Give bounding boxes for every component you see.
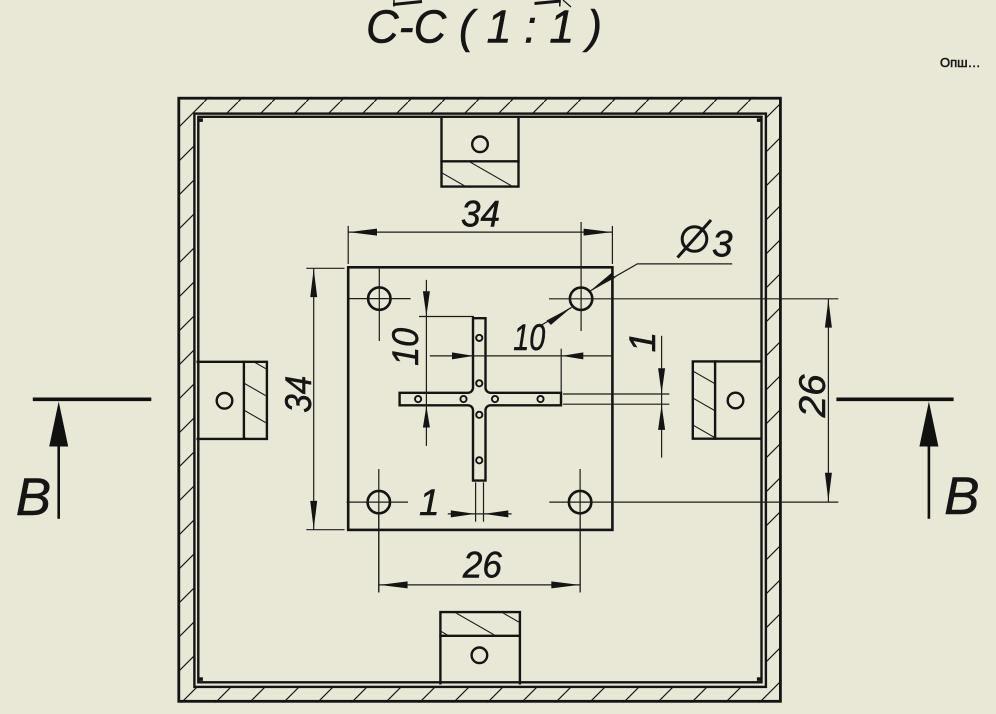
centerline top-left hole vertical — [378, 269, 380, 341]
svg-text:1: 1 — [419, 482, 440, 523]
dim 10 horizontal: ext line — [560, 349, 562, 393]
dim 34 left: arrow top — [310, 269, 317, 297]
dim 26 right: arrow top — [825, 299, 832, 327]
centerline+ext top-right hole horizontal — [549, 298, 838, 300]
svg-text:B: B — [16, 468, 51, 527]
dim 26 bottom: dim line — [379, 584, 580, 586]
frame innermost edge — [198, 117, 761, 683]
dim 1 bottom: dim line — [448, 513, 512, 515]
slot circle right-inner — [492, 396, 498, 402]
plate hole top-left — [368, 287, 390, 309]
top tab divider — [440, 160, 519, 162]
left tab hole — [217, 393, 233, 409]
dim 10 vertical: arrow bottom (up) — [423, 406, 430, 428]
inner plate contour — [348, 267, 612, 530]
dim 26 bottom: ext line right — [579, 514, 581, 592]
svg-text:3: 3 — [712, 223, 733, 264]
svg-text:B: B — [944, 467, 979, 526]
frame wall hatch fill — [178, 97, 782, 703]
svg-text:10: 10 — [385, 328, 426, 366]
dim 10 vertical: ext line — [419, 316, 474, 318]
section arrow B right — [919, 402, 938, 447]
svg-text:Опш…: Опш… — [940, 55, 981, 70]
slot circle left-inner — [460, 396, 466, 402]
plate hole top-right — [570, 288, 592, 310]
dim 34 top: arrow left — [349, 229, 377, 236]
right tab hole — [728, 393, 744, 409]
dim 34 top: ext line right — [611, 226, 613, 264]
centerline bottom-right hole vertical + ext — [579, 469, 581, 592]
dia3 leader arrow upper — [590, 273, 615, 291]
dim 34 left: dim line — [313, 268, 315, 529]
corner mark top-right — [757, 118, 761, 122]
slot circle bottom-outer — [476, 457, 482, 463]
dim 1 bottom: ext line left — [475, 482, 477, 521]
dim 10 horizontal: arrow right (left-pointing) — [562, 352, 584, 359]
frame outer contour — [179, 98, 781, 701]
bottom tab section hatch — [442, 613, 519, 635]
dim 1 bottom: arrow right (left-pointing) — [484, 510, 508, 517]
clipped mark left above title — [393, 2, 422, 5]
dim 1 bottom: ext line right — [483, 482, 485, 521]
centerline bottom-left hole vertical + ext — [378, 469, 380, 592]
dim 10 horizontal: dim line — [430, 355, 612, 357]
dim 26 bottom: ext line left — [378, 514, 380, 592]
slot circle top-inner — [476, 380, 482, 386]
plate hole bottom-right — [569, 491, 591, 513]
right tab body — [693, 361, 762, 438]
dim 1 right: arrow top (down) — [658, 368, 665, 393]
dim 34 left: ext line bottom — [306, 529, 344, 531]
svg-text:C-C ( 1 : 1 ): C-C ( 1 : 1 ) — [366, 1, 602, 53]
svg-text:26: 26 — [462, 545, 502, 586]
dim 34 left: arrow bottom — [310, 501, 317, 529]
plate hole bottom-left — [368, 491, 390, 513]
svg-text:26: 26 — [792, 374, 833, 418]
centerline+ext bottom-right hole horizontal — [549, 501, 838, 503]
cross slot contour — [400, 318, 561, 480]
centerline top-left hole horizontal — [350, 298, 411, 300]
left tab body — [197, 362, 267, 439]
centerline bottom-left hole horizontal — [347, 501, 409, 503]
dia3 leader arrow lower — [547, 307, 572, 325]
dim 26 bottom: arrow right — [551, 581, 579, 588]
dia3 leader lower tail — [539, 307, 572, 326]
section line B right — [836, 397, 953, 401]
dim 34 top: ext line left — [347, 226, 349, 264]
bottom tab divider — [439, 635, 521, 637]
slot circle bottom-inner — [476, 412, 482, 418]
svg-text:34: 34 — [278, 376, 319, 413]
dim 10 horizontal: arrow left (right-pointing) — [452, 352, 474, 359]
dia3 leader line — [590, 264, 732, 291]
dim 10 vertical: arrow top (down) — [423, 291, 430, 316]
dim 34 top: arrow right — [584, 229, 612, 236]
centerline top-right hole vertical — [580, 222, 582, 331]
svg-text:1: 1 — [622, 332, 663, 353]
dim 1 right: dim line — [661, 336, 663, 458]
dim 1 right: arrow bottom (up) — [658, 405, 665, 430]
right tab section hatch — [694, 363, 714, 438]
section arrow B left — [49, 402, 68, 447]
dim 26 right: arrow bottom — [825, 473, 832, 501]
corner mark bottom-left — [199, 677, 203, 681]
dia3 text — [678, 220, 734, 264]
dim 10 vertical: dim line — [425, 280, 427, 446]
svg-text:34: 34 — [461, 194, 500, 235]
dim 1 bottom: arrow left (right-pointing) — [451, 510, 475, 517]
dim 1 right: ext line top — [563, 393, 669, 395]
slot circle top-outer — [476, 335, 482, 341]
top tab section hatch — [443, 162, 518, 185]
top tab hole — [472, 137, 488, 153]
dim 34 top: dim line — [348, 231, 612, 233]
frame hatch inner boundary — [194, 114, 766, 687]
dim 26 bottom: arrow left — [379, 581, 407, 588]
slot circle left-outer — [415, 396, 421, 402]
bottom tab body — [440, 612, 520, 684]
bottom tab hole — [472, 648, 488, 664]
corner mark bottom-right — [757, 677, 761, 681]
right tab divider — [714, 360, 716, 440]
svg-text:10: 10 — [513, 317, 545, 358]
dim 26 right: dim line — [827, 299, 829, 502]
left tab divider — [243, 361, 245, 440]
section line B left — [33, 397, 152, 401]
dim 34 left: ext line top — [306, 267, 344, 269]
top tab body — [442, 117, 519, 187]
clipped mark right above title — [535, 1, 561, 4]
slot circle right-outer — [537, 396, 543, 402]
dim 1 right: ext line bottom — [563, 403, 669, 405]
corner mark top-left — [199, 118, 203, 122]
left tab section hatch — [245, 363, 266, 438]
